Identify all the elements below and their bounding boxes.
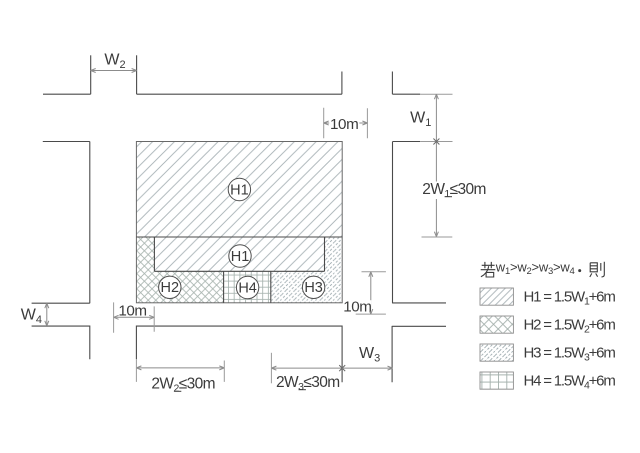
bottom road upper line right segment: [392, 302, 446, 304]
bottom road upper line far-left segment: [32, 302, 90, 304]
region H1 main: [136, 142, 342, 238]
region H1 inner band: [154, 237, 324, 271]
dim 10m top extension lines: [324, 108, 368, 139]
svg-text:2W3≤30m: 2W3≤30m: [276, 374, 340, 393]
right road west line: [392, 142, 394, 303]
dim tick X at 2W3/W3: [339, 365, 345, 371]
underline of leq 2W1: [445, 196, 452, 198]
dim 10m bottom-left line: [114, 316, 155, 318]
right road stub east: [391, 72, 393, 95]
svg-text:10m: 10m: [343, 299, 371, 316]
legend swatch H3: [480, 344, 513, 361]
svg-text:H4 = 1.5W4+6m: H4 = 1.5W4+6m: [524, 373, 616, 392]
node H1 circle main: [228, 178, 250, 200]
dim 2W3 extension line: [270, 353, 272, 384]
svg-text:10m: 10m: [118, 302, 146, 319]
white halo for 10m top label: [329, 117, 359, 131]
bottom road lower line middle segment: [136, 326, 342, 382]
region H3 L-shape: [271, 237, 342, 303]
right road stub west: [341, 72, 343, 95]
region H2 L-shape: [136, 237, 223, 303]
region H4: [224, 271, 271, 303]
dim W3 line: [342, 367, 392, 369]
block divider V3: [223, 271, 225, 303]
svg-text:H1 = 1.5W1+6m: H1 = 1.5W1+6m: [524, 289, 616, 308]
svg-text:H3: H3: [304, 280, 323, 296]
legend title middle dot: [578, 269, 581, 272]
svg-text:H2: H2: [161, 280, 180, 296]
block divider V1: [153, 237, 155, 271]
left road stub east: [136, 55, 138, 94]
legend title char ruo (SVG drawn): [481, 262, 496, 277]
legend title char ze (SVG drawn): [590, 262, 605, 277]
block internal line B: [154, 270, 324, 272]
svg-text:2W1≤30m: 2W1≤30m: [422, 181, 486, 200]
underline of leq 2W2: [174, 390, 181, 392]
svg-text:W3: W3: [359, 345, 380, 365]
legend swatch H4: [480, 372, 513, 389]
svg-text:H2 = 1.5W2+6m: H2 = 1.5W2+6m: [524, 317, 616, 336]
road lines: [32, 55, 446, 382]
left road stub west: [90, 55, 92, 94]
svg-text:2W2≤30m: 2W2≤30m: [151, 375, 215, 394]
top road lower line right segment: [393, 141, 421, 143]
dim 2W2 extension lines: [136, 359, 224, 382]
svg-text:H1: H1: [231, 249, 250, 265]
top road upper line right segment: [392, 93, 420, 95]
svg-text:w1>w2>w3>w4: w1>w2>w3>w4: [495, 259, 575, 277]
dim W2 line: [91, 70, 137, 72]
white halo for 2W1 label: [421, 182, 485, 200]
dim 10m top line: [324, 122, 368, 124]
node H4 circle: [236, 276, 258, 298]
block divider V4: [270, 271, 272, 303]
dim W1 vertical line: [435, 94, 437, 237]
dim 2W1 terminator: [422, 236, 453, 238]
dim 2W2 line: [136, 367, 224, 369]
block divider V2: [324, 237, 326, 271]
underline of leq 2W3: [299, 389, 306, 391]
block border: [136, 142, 342, 303]
dim W4 vertical line: [46, 303, 48, 326]
white halo for 10m right label: [343, 300, 371, 311]
svg-text:W4: W4: [21, 306, 42, 326]
legend swatch H2: [480, 316, 513, 333]
block internal line A: [136, 236, 342, 238]
dimension graphics: [45, 69, 453, 384]
dim W1 extension light segments: [420, 94, 452, 141]
svg-text:H3 = 1.5W3+6m: H3 = 1.5W3+6m: [524, 345, 616, 364]
node H3 circle: [302, 276, 324, 298]
dim 10m bottom-left extension lines: [114, 302, 155, 332]
legend swatch H1: [480, 288, 513, 305]
svg-text:W1: W1: [410, 109, 431, 129]
node H2 circle: [159, 276, 181, 298]
node H1 circle inner: [229, 245, 251, 267]
svg-text:H4: H4: [238, 280, 257, 296]
dim 10m right extension lines: [356, 272, 386, 314]
dim 2W3 line: [271, 367, 342, 369]
svg-text:10m: 10m: [330, 116, 358, 133]
top road lower line left segment: [43, 141, 90, 143]
dim tick X at W1/2W1: [433, 139, 439, 145]
bottom road lower line right segment: [392, 326, 446, 382]
left road west line: [89, 142, 91, 304]
dim 10m right vertical line: [370, 272, 372, 314]
bottom road lower line far-left segment: [32, 326, 90, 359]
svg-text:W2: W2: [104, 51, 125, 71]
top road upper line left segment: [43, 93, 91, 95]
svg-text:H1: H1: [230, 182, 249, 198]
top road upper line middle segment: [137, 93, 342, 95]
